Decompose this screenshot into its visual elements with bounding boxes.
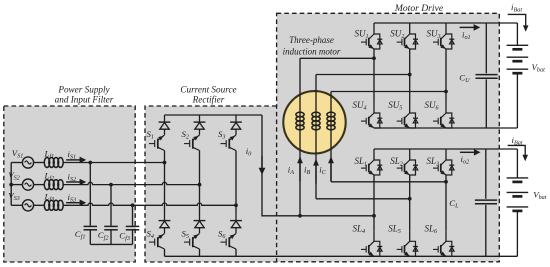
junction: phase A / lower leg 1 bbox=[372, 214, 376, 218]
wire: motor phase B vertical bbox=[315, 75, 317, 199]
current arrow iB bbox=[313, 159, 319, 184]
current arrow io1 bbox=[460, 24, 481, 31]
wire: upper leg 2 midsection bbox=[409, 49, 411, 102]
current arrow iS2 bbox=[66, 179, 86, 186]
wire: rectifier leg 2 midsection bbox=[199, 185, 201, 214]
wire: source bus (left vertical) bbox=[10, 163, 12, 206]
capacitor Cf2 bbox=[104, 226, 118, 229]
switch SU6 (IGBT + diode) bbox=[433, 102, 454, 128]
wire: upper inverter positive rail bbox=[374, 22, 517, 24]
switch S1 (series diode + IGBT) bbox=[149, 115, 170, 151]
wire: S3 to phase row bbox=[235, 151, 237, 206]
wire: rectifier top DC rail bbox=[165, 114, 263, 116]
wire: rectifier leg 1 midsection bbox=[164, 163, 166, 214]
switch S6 (series diode + IGBT) bbox=[221, 214, 242, 250]
junction: phase A / upper leg 1 bbox=[372, 56, 376, 60]
AC source VS1 bbox=[11, 157, 33, 168]
label iBat (bottom) bbox=[512, 135, 523, 147]
capacitor CU link wire (bottom) bbox=[485, 79, 487, 128]
switch S2 (series diode + IGBT) bbox=[184, 115, 205, 151]
wire: rectifier leg 3 midsection bbox=[235, 205, 237, 213]
switch SU3 (IGBT + diode) bbox=[433, 23, 454, 49]
label S5 bbox=[182, 228, 190, 240]
label iB bbox=[304, 165, 310, 177]
label SU5 bbox=[388, 100, 402, 112]
switch SL3 (IGBT + diode) bbox=[433, 149, 454, 175]
wire: lower leg 3 midsection bbox=[445, 175, 447, 230]
wire: VS3 to Lf3 bbox=[34, 204, 45, 206]
label Vbat (upper) bbox=[532, 62, 546, 74]
wire: Cf3 to filter bottom rail bbox=[132, 231, 134, 245]
current arrow iS3 bbox=[66, 199, 86, 206]
wire: shared bottom DC rail (rectifier and lower inverter to battery) bbox=[165, 255, 518, 257]
wire: phase 1 row to rectifier leg 1 bbox=[63, 162, 164, 164]
label iBat (top) bbox=[511, 2, 522, 14]
wire: S2 to phase row bbox=[199, 151, 201, 185]
label i0 bbox=[246, 146, 252, 158]
label: Three-phase induction motor bbox=[283, 35, 341, 56]
label Lf3 bbox=[44, 191, 55, 203]
label S3 bbox=[218, 129, 226, 141]
wire: S6 to bottom rail bbox=[235, 249, 237, 256]
wire: VS1 to Lf1 bbox=[34, 162, 45, 164]
current arrow io2 bbox=[460, 149, 481, 156]
capacitor CU link wire (top) bbox=[485, 23, 487, 73]
switch SL4 (IGBT + diode) bbox=[361, 230, 382, 256]
wire: phase 3 row to rectifier leg 3 (hops over drops 1,2 and legs 1,2) bbox=[63, 203, 236, 205]
label SL1 bbox=[355, 156, 368, 168]
switch S3 (series diode + IGBT) bbox=[221, 115, 242, 151]
label CL bbox=[449, 198, 459, 210]
capacitor CL bbox=[475, 200, 497, 204]
current arrow iS1 bbox=[66, 157, 86, 164]
wire: drop to Cf3 bbox=[132, 205, 134, 225]
junction: phase 2 / filter drop bbox=[109, 183, 113, 187]
label SL6 bbox=[425, 223, 439, 235]
label VS1 bbox=[12, 148, 24, 160]
switch SU5 (IGBT + diode) bbox=[397, 102, 418, 128]
title: Motor Drive bbox=[394, 3, 444, 14]
switch SL2 (IGBT + diode) bbox=[397, 149, 418, 175]
label VS2 bbox=[8, 170, 20, 182]
label SU4 bbox=[353, 100, 367, 112]
switch SL6 (IGBT + diode) bbox=[433, 230, 454, 256]
wire: motor phase C vertical bbox=[330, 92, 332, 182]
wire: phase C to lower leg 3 bbox=[331, 181, 446, 183]
label iS1 bbox=[68, 149, 77, 161]
wire: Cf2 to filter bottom rail bbox=[110, 231, 112, 245]
label iC bbox=[319, 165, 326, 177]
inductor Lf3 bbox=[44, 200, 63, 210]
switch S5 (series diode + IGBT) bbox=[184, 214, 205, 250]
label VS3 bbox=[8, 191, 20, 203]
current arrow iBat (bottom) bbox=[508, 145, 528, 161]
capacitor CU bbox=[476, 75, 498, 79]
wire: S4 to bottom rail bbox=[164, 249, 166, 256]
junction: i0 link / motor phase A bbox=[298, 214, 302, 218]
label S2 bbox=[182, 129, 190, 141]
label SL5 bbox=[388, 223, 401, 235]
label iA bbox=[288, 165, 294, 177]
current arrow iBat (top) bbox=[508, 14, 529, 31]
wire: phase A to upper leg 1 bbox=[300, 57, 374, 59]
junction: phase 1 / filter drop bbox=[88, 161, 92, 165]
svg-text:and Input Filter: and Input Filter bbox=[55, 94, 114, 104]
current arrow iA bbox=[297, 156, 303, 181]
wire: lower leg 1 midsection bbox=[373, 175, 375, 230]
label S1 bbox=[147, 129, 155, 141]
motor winding B bbox=[312, 112, 320, 130]
junction: phase 2 / rectifier leg 2 bbox=[198, 183, 202, 187]
label Cf1 bbox=[75, 229, 86, 241]
wire: phase B to upper leg 2 bbox=[316, 74, 410, 76]
label Cf2 bbox=[98, 230, 109, 242]
switch SU4 (IGBT + diode) bbox=[361, 102, 382, 128]
label SU1 bbox=[355, 28, 369, 40]
label SL3 bbox=[427, 156, 440, 168]
label S6 bbox=[218, 228, 226, 240]
wire: phase B to lower leg 2 bbox=[316, 198, 410, 200]
wire: S5 to bottom rail bbox=[199, 249, 201, 256]
wire: upper leg 3 midsection bbox=[445, 49, 447, 102]
wire: upper inverter negative rail bbox=[374, 127, 517, 129]
motor winding C bbox=[327, 112, 335, 130]
wire: VS2 to Lf2 bbox=[34, 184, 45, 186]
junction: phase C / upper leg 3 bbox=[444, 90, 448, 94]
svg-text:Current Source: Current Source bbox=[180, 85, 236, 95]
power supply and input filter block (dashed box) bbox=[4, 106, 135, 262]
label S4 bbox=[147, 228, 155, 240]
AC source VS3 bbox=[11, 200, 33, 211]
junction: phase B / lower leg 2 bbox=[408, 197, 412, 201]
switch SU1 (IGBT + diode) bbox=[361, 23, 382, 49]
switch SU2 (IGBT + diode) bbox=[397, 23, 418, 49]
current arrow i0 bbox=[259, 156, 266, 175]
svg-text:Three-phase: Three-phase bbox=[289, 35, 334, 45]
junction: phase 3 / rectifier leg 3 bbox=[234, 203, 238, 207]
capacitor Cf1 bbox=[84, 226, 98, 229]
switch SL1 (IGBT + diode) bbox=[361, 149, 382, 175]
title: Power Supply and Input Filter bbox=[55, 85, 114, 105]
label iS2 bbox=[68, 171, 77, 183]
wire: motor phase A vertical bbox=[299, 58, 301, 216]
wire: lower inverter positive rail bbox=[374, 148, 517, 150]
label io1 bbox=[462, 30, 471, 42]
wire: drop to Cf2 bbox=[110, 185, 112, 226]
wire: upper leg 1 midsection bbox=[373, 49, 375, 102]
label Lf2 bbox=[44, 171, 55, 183]
AC source VS2 bbox=[11, 179, 33, 190]
svg-text:induction motor: induction motor bbox=[283, 46, 341, 56]
battery Vbat (lower) bbox=[507, 178, 529, 211]
current source rectifier block (dashed box) bbox=[145, 106, 277, 262]
switch SL5 (IGBT + diode) bbox=[397, 230, 418, 256]
junction: phase B / upper leg 2 bbox=[408, 73, 412, 77]
battery Vbat (upper) bbox=[507, 45, 529, 73]
label SL4 bbox=[353, 223, 366, 235]
wire: upper rail to battery Vbat (upper) bbox=[516, 23, 518, 45]
label SU3 bbox=[427, 28, 441, 40]
wire: battery (lower) to bottom rail bbox=[516, 211, 518, 256]
label iS3 bbox=[68, 192, 77, 204]
junction: bus / phase 2 bbox=[9, 183, 13, 187]
wire: lower rail to battery Vbat (lower) bbox=[516, 149, 518, 178]
junction: phase C / lower leg 3 bbox=[444, 180, 448, 184]
inductor Lf1 bbox=[44, 158, 63, 168]
svg-text:Power Supply: Power Supply bbox=[57, 85, 110, 95]
three-phase induction motor M1 (stator circle) bbox=[283, 91, 345, 153]
inductor Lf2 bbox=[44, 180, 63, 190]
label io2 bbox=[461, 154, 470, 166]
label SL2 bbox=[390, 156, 403, 168]
capacitor CL link wire (top) bbox=[485, 149, 487, 199]
label SU6 bbox=[425, 100, 440, 112]
switch S4 (series diode + IGBT) bbox=[149, 214, 170, 250]
wire: battery (upper) to negative rail bbox=[516, 73, 518, 128]
label Lf1 bbox=[44, 149, 55, 161]
wire: filter bottom rail bbox=[90, 243, 132, 245]
current arrow iC bbox=[328, 156, 334, 181]
svg-text:Motor Drive: Motor Drive bbox=[394, 3, 444, 14]
capacitor Cf3 bbox=[126, 226, 140, 229]
label SU2 bbox=[390, 28, 404, 40]
wire: drop to Cf1 bbox=[89, 163, 91, 226]
motor winding A bbox=[296, 112, 304, 130]
wire: S1 to phase row bbox=[164, 151, 166, 163]
wire: phase 2 row to rectifier leg 2 (hops over drop 1 and leg 1) bbox=[63, 182, 199, 184]
wire: phase C to upper leg 3 bbox=[331, 91, 446, 93]
label CU bbox=[459, 73, 470, 85]
svg-text:Rectifier: Rectifier bbox=[192, 94, 225, 104]
title: Current Source Rectifier bbox=[180, 85, 236, 105]
wire: lower leg 2 midsection bbox=[409, 175, 411, 230]
label Vbat (lower) bbox=[533, 189, 547, 201]
motor drive block (dashed box) bbox=[277, 13, 500, 261]
label Cf3 bbox=[119, 231, 130, 243]
wire: Cf1 to filter bottom rail bbox=[89, 231, 91, 245]
capacitor CL link wire (bottom) bbox=[485, 205, 487, 256]
junction: phase 3 / filter drop bbox=[131, 203, 135, 207]
wire: i0 link (rectifier output down and right to lower inverter leg 1) bbox=[262, 115, 374, 216]
junction: phase 1 / rectifier leg 1 bbox=[163, 161, 167, 165]
